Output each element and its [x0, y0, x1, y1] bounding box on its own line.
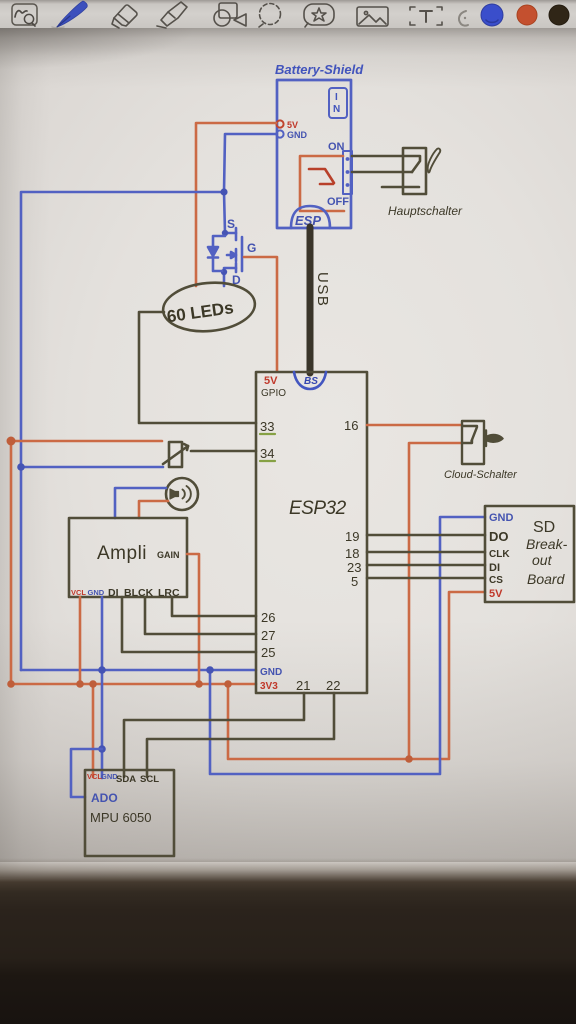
- eraser tool: [112, 5, 137, 28]
- wire pot wiper to ESP pin34: [191, 450, 256, 453]
- wire GAIN down (red): [187, 554, 199, 684]
- blue color dot: [481, 4, 503, 26]
- node GND pot branch: [17, 463, 25, 471]
- svg-text:18: 18: [345, 546, 359, 561]
- IN box: [329, 88, 347, 118]
- pin 33 underline green: [260, 433, 275, 435]
- node MPU GND branch: [98, 745, 106, 753]
- svg-text:Hauptschalter: Hauptschalter: [388, 204, 463, 218]
- wire MPU VCL (red): [92, 684, 95, 777]
- node 3V3 corner bottom: [7, 680, 15, 688]
- mosfet body diode: [208, 236, 225, 271]
- node GAIN-3V3: [195, 680, 203, 688]
- wire battery internal 5V to switch: [300, 156, 344, 211]
- wire cloud switch down (red): [409, 443, 462, 759]
- svg-text:16: 16: [344, 418, 358, 433]
- wire Ampli VCC down (red): [79, 597, 82, 684]
- svg-text:DI: DI: [108, 587, 119, 599]
- lasso tail: [259, 24, 263, 27]
- svg-text:G: G: [247, 241, 256, 255]
- wire ADO to GND (blue): [71, 749, 102, 797]
- wire pin21 to MPU SDA: [124, 693, 304, 777]
- svg-text:GND: GND: [88, 588, 105, 597]
- svg-text:N: N: [333, 104, 340, 115]
- wire gate to ESP 5V (red): [244, 257, 277, 371]
- svg-text:SDA: SDA: [116, 774, 136, 785]
- node VCC-3V3: [76, 680, 84, 688]
- wire pin16 to cloud switch (red): [367, 424, 462, 427]
- wire pin23 to SD DI: [367, 564, 485, 567]
- wire Ampli LRC to pin26: [172, 597, 256, 616]
- svg-text:GND: GND: [287, 130, 308, 140]
- tool button select/zoom: [12, 4, 37, 26]
- MPU box: [85, 770, 174, 856]
- svg-text:Ampli: Ampli: [97, 543, 147, 564]
- wire pin18 to SD CLK: [367, 551, 485, 554]
- nib small icon: [459, 11, 468, 26]
- op ESP32 box: [256, 372, 367, 693]
- svg-text:Cloud-Schalter: Cloud-Schalter: [444, 469, 518, 481]
- svg-text:23: 23: [347, 560, 361, 575]
- svg-text:Battery-Shield: Battery-Shield: [275, 62, 364, 77]
- SCHEMATIC2: [7, 437, 486, 798]
- svg-text:5V: 5V: [264, 375, 278, 387]
- dark color dot: [549, 5, 569, 25]
- svg-text:DO: DO: [489, 529, 509, 544]
- svg-text:DI: DI: [489, 562, 500, 574]
- USB cable: [307, 227, 314, 373]
- wire pin19 to SD DO: [367, 534, 485, 537]
- svg-text:VCL: VCL: [71, 588, 86, 597]
- svg-text:CS: CS: [489, 575, 503, 586]
- wire pin5 to SD CS: [367, 577, 485, 580]
- node GND-SD branch: [206, 666, 214, 674]
- wire battery 5V to LEDs (red): [196, 123, 276, 286]
- svg-text:Board: Board: [527, 571, 566, 587]
- svg-text:BLCK: BLCK: [124, 587, 154, 599]
- node Ampli GND: [98, 666, 106, 674]
- wire speaker to Ampli (red): [139, 501, 168, 518]
- svg-text:ESP32: ESP32: [289, 498, 347, 519]
- wire LED data to ESP pin33: [139, 312, 256, 423]
- svg-text:21: 21: [296, 678, 310, 693]
- svg-text:19: 19: [345, 529, 359, 544]
- potentiometer R1: [163, 442, 188, 467]
- shapes tool: [214, 3, 246, 26]
- svg-text:I: I: [335, 92, 338, 103]
- wire GND to SD (blue): [210, 517, 485, 774]
- svg-text:5V: 5V: [287, 120, 298, 130]
- Ampli box: [69, 518, 187, 597]
- svg-text:GPIO: GPIO: [261, 388, 286, 399]
- pin 34 underline green: [260, 460, 275, 462]
- svg-text:26: 26: [261, 610, 275, 625]
- svg-text:33: 33: [260, 419, 274, 434]
- wire 3V3 rail left vertical + horizontals (red): [11, 441, 256, 684]
- Cloud switch body: [462, 421, 503, 464]
- red color dot: [517, 5, 537, 25]
- node cloud-5V junction: [405, 755, 413, 763]
- switch blade red: [309, 169, 334, 183]
- text tool: [410, 7, 442, 25]
- terminal 5V: [276, 120, 283, 127]
- svg-text:5V: 5V: [489, 588, 503, 600]
- pen tool (blue, selected): [52, 1, 87, 28]
- 60 LEDs ellipse: [161, 279, 257, 335]
- node battery GND junction: [220, 188, 227, 195]
- marker tool: [157, 2, 187, 28]
- wire speaker to Ampli (blue): [115, 488, 166, 518]
- svg-text:GND: GND: [489, 512, 514, 524]
- svg-text:ADO: ADO: [91, 791, 118, 805]
- svg-text:25: 25: [261, 645, 275, 660]
- image tool: [357, 7, 388, 26]
- svg-text:MPU 6050: MPU 6050: [90, 810, 151, 825]
- BS bump on ESP32: [294, 372, 326, 389]
- svg-text:60 LEDs: 60 LEDs: [166, 298, 235, 326]
- ESP bump on battery shield: [291, 206, 330, 228]
- svg-text:27: 27: [261, 628, 275, 643]
- svg-text:3V3: 3V3: [260, 681, 278, 692]
- speaker icon: [166, 478, 198, 510]
- terminal GND: [276, 130, 283, 137]
- wire pin22 to MPU SCL: [147, 693, 334, 777]
- svg-text:GAIN: GAIN: [157, 550, 180, 560]
- battery shield box: [277, 80, 351, 228]
- svg-text:SCL: SCL: [140, 774, 159, 785]
- wire Ampli BLCK to pin27: [145, 597, 256, 634]
- wire Ampli GND down + to MPU (blue): [101, 597, 104, 778]
- svg-text:Break-: Break-: [526, 536, 568, 552]
- svg-text:BS: BS: [304, 376, 318, 387]
- SCHEMATIC3: [85, 372, 574, 856]
- sticker tool (cloud with star): [304, 4, 334, 27]
- node 3V3 corner top: [7, 437, 16, 446]
- svg-text:SD: SD: [533, 519, 555, 536]
- Hauptschalter switch body: [352, 148, 440, 194]
- svg-text:OFF: OFF: [327, 196, 349, 208]
- svg-text:out: out: [532, 552, 553, 568]
- svg-text:CLK: CLK: [489, 549, 510, 560]
- wire 3V3 to SD 5V (red): [228, 592, 485, 759]
- wire GND rail bottom to ESP (blue): [21, 669, 256, 672]
- svg-text:22: 22: [326, 678, 340, 693]
- wire GND down to mosfet S: [224, 192, 225, 233]
- wire Ampli DI to pin25: [122, 597, 256, 652]
- switch contact red: [320, 183, 333, 186]
- svg-text:5: 5: [351, 574, 358, 589]
- svg-text:34: 34: [260, 446, 274, 461]
- mosfet Q1: [221, 228, 242, 286]
- node MPU VCL-3V3: [89, 680, 97, 688]
- svg-text:USB: USB: [314, 272, 331, 307]
- SD breakout box: [485, 506, 574, 602]
- svg-text:LRC: LRC: [158, 587, 180, 599]
- wire pot bottom to GND (blue): [21, 466, 163, 469]
- svg-text:GND: GND: [260, 667, 282, 678]
- connector block: [343, 151, 352, 194]
- lasso tool: [260, 4, 281, 25]
- wire battery GND left + down (blue): [21, 134, 276, 670]
- node 3V3 branch: [224, 680, 232, 688]
- svg-text:S: S: [227, 217, 235, 231]
